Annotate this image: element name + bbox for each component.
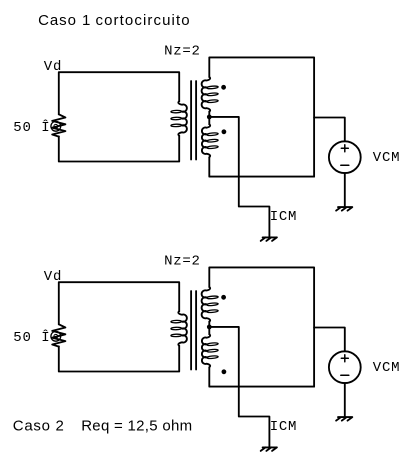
node center tap junction (circuit 2) xyxy=(207,325,212,330)
svg-text:Caso 2: Caso 2 xyxy=(13,418,65,435)
svg-text:ICM: ICM xyxy=(270,209,297,225)
minus sign xyxy=(341,164,349,166)
polarity dot upper winding (circuit 2) xyxy=(221,295,226,300)
transformer T1 secondary upper winding xyxy=(202,77,219,112)
svg-text:Caso 1cortocircuito: Caso 1cortocircuito xyxy=(38,12,191,29)
wire secondary top (circuit 2) xyxy=(209,267,314,386)
svg-text:VCM: VCM xyxy=(373,360,400,376)
svg-text:Î: Î xyxy=(41,328,50,346)
transformer T2 core xyxy=(191,291,196,370)
ground ICM (circuit 2) xyxy=(261,447,277,451)
transformer T2 primary winding xyxy=(171,311,187,346)
wire VCM to ground (circuit 2) xyxy=(344,383,346,417)
wire VCM to ground xyxy=(344,173,346,207)
resistor 50 ohm xyxy=(52,114,65,136)
svg-text:50: 50 xyxy=(13,120,31,136)
svg-text:VCM: VCM xyxy=(373,150,400,166)
voltage source VCM (circuit 2) xyxy=(329,351,361,383)
wire primary loop bottom xyxy=(59,136,179,162)
ground VCM xyxy=(336,207,352,211)
wire center tap to ICM ground (circuit 2) xyxy=(209,327,269,447)
minus sign (circuit 2) xyxy=(341,374,349,376)
transformer T2 secondary lower winding xyxy=(202,334,218,367)
ground VCM (circuit 2) xyxy=(336,417,352,421)
wire secondary bottom (circuit 2) xyxy=(209,367,314,386)
wire secondary middle segment (circuit 2) xyxy=(208,322,210,335)
svg-text:Req = 12,5 ohm: Req = 12,5 ohm xyxy=(81,418,192,435)
wire secondary top xyxy=(209,57,314,176)
resistor 50 ohm (circuit 2) xyxy=(52,324,65,346)
polarity dot upper winding xyxy=(221,85,226,90)
wire primary loop top xyxy=(59,72,179,114)
wire center tap to ICM ground xyxy=(209,117,269,237)
wire primary loop bottom (circuit 2) xyxy=(59,346,179,372)
svg-text:Nz=2: Nz=2 xyxy=(164,254,201,270)
wire primary loop top (circuit 2) xyxy=(59,282,179,324)
plus sign xyxy=(341,145,348,152)
svg-text:50: 50 xyxy=(13,330,31,346)
wire secondary middle segment xyxy=(208,112,210,125)
wire to VCM source (circuit 2) xyxy=(314,328,345,352)
svg-text:ICM: ICM xyxy=(270,419,297,435)
transformer T1 primary winding xyxy=(171,101,187,136)
polarity dot lower winding xyxy=(222,129,227,134)
transformer T1 core xyxy=(191,81,196,160)
transformer T2 secondary upper winding xyxy=(202,287,219,322)
node center tap junction xyxy=(207,115,212,120)
voltage source VCM xyxy=(329,141,361,173)
transformer T1 secondary lower winding xyxy=(202,124,218,157)
svg-text:Î: Î xyxy=(41,118,50,136)
wire to VCM source xyxy=(314,118,345,142)
ground ICM xyxy=(261,237,277,241)
wire secondary bottom xyxy=(209,157,314,176)
plus sign (circuit 2) xyxy=(341,355,348,362)
svg-text:Nz=2: Nz=2 xyxy=(164,44,201,60)
polarity dot lower winding bottom (circuit 2) xyxy=(222,369,227,374)
